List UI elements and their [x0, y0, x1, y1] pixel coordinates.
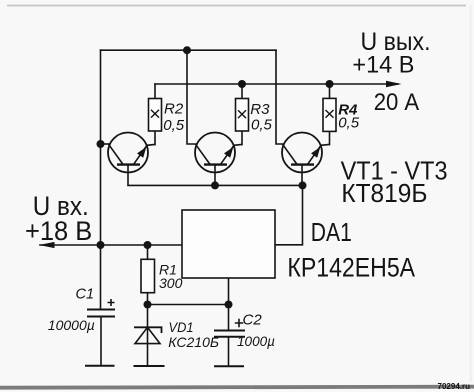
node: left vertical / VT1 base [97, 140, 105, 148]
node: output rail / R3 [238, 80, 246, 88]
wire: VD1 top lead [147, 305, 149, 328]
capacitor C2 [214, 331, 245, 337]
wire: VT3 collector to DA1 right pin [275, 185, 303, 244]
wire: VT1 base tap [101, 143, 110, 145]
svg-text:VD1: VD1 [169, 319, 194, 335]
resistor R2 [149, 99, 162, 132]
svg-text:+18 В: +18 В [25, 216, 92, 246]
transistor VT1 [108, 133, 155, 186]
node: collector rail / VT3 / DA1 [299, 181, 307, 189]
svg-text:0,5: 0,5 [163, 117, 185, 134]
wire: VT2 base drop [187, 50, 197, 144]
wire: R1 top lead [147, 245, 149, 259]
svg-text:+14 В: +14 В [352, 51, 414, 78]
svg-text:R3: R3 [250, 101, 270, 118]
wire: DA1 common pin down [228, 278, 230, 305]
wire: collector rail [128, 184, 303, 186]
wire: R2 top lead [154, 84, 156, 99]
svg-text:КС210Б: КС210Б [168, 334, 219, 350]
node: input / R1 [144, 241, 152, 249]
capacitor C1 [87, 310, 115, 317]
svg-text:КТ819Б: КТ819Б [341, 178, 427, 208]
wire: R1 bottom lead [147, 293, 149, 305]
svg-text:1000µ: 1000µ [237, 333, 275, 349]
wire: R4 bottom lead to VT3 emitter [329, 131, 331, 144]
transistor VT2 [195, 133, 242, 186]
svg-text:R2: R2 [164, 101, 184, 118]
wire: R4 top lead [329, 84, 331, 98]
wire: node R1/VD1 to DA1 common/C2 [148, 304, 229, 306]
regulator IC DA1 [182, 210, 275, 278]
zener diode VD1 [134, 327, 165, 366]
wire: R3 bottom lead to VT2 emitter [241, 131, 243, 145]
node: top rail / VT2 base [183, 46, 191, 54]
svg-text:КР142ЕН5А: КР142ЕН5А [287, 253, 415, 283]
wire: R2 bottom lead to VT1 emitter [154, 131, 156, 145]
svg-text:300: 300 [159, 275, 183, 291]
resistor R1 [141, 259, 155, 292]
svg-text:20 А: 20 А [374, 89, 420, 116]
node: collector rail / VT2 [211, 181, 219, 189]
input arrow U vx [39, 242, 55, 248]
svg-text:10000µ: 10000µ [48, 317, 95, 333]
svg-text:C2: C2 [243, 312, 263, 329]
resistor R3 [236, 99, 249, 132]
svg-text:DA1: DA1 [311, 217, 352, 247]
svg-text:0,5: 0,5 [338, 115, 360, 132]
wire: top base rail [101, 49, 277, 51]
svg-text:C1: C1 [76, 286, 95, 302]
transistor VT3 [282, 133, 330, 186]
node: DA1 common / C2 [225, 301, 233, 309]
wire: output rail +14V [155, 83, 398, 85]
wire: input wire +18V [40, 244, 182, 246]
resistor R4 [323, 98, 336, 131]
svg-text:0,5: 0,5 [251, 117, 273, 134]
wire: C2 top lead [228, 305, 230, 331]
node: output rail / R4 [326, 80, 334, 88]
node: input / left vertical [97, 241, 105, 249]
wire: R3 top lead [241, 84, 243, 99]
wire: left main vertical (base rail to input node to C1) [100, 50, 102, 309]
svg-text:70294.ru: 70294.ru [438, 381, 471, 391]
wire: VT3 base drop [276, 50, 284, 144]
output arrow U vyh [386, 81, 402, 88]
node: R1 / VD1 [144, 301, 152, 309]
